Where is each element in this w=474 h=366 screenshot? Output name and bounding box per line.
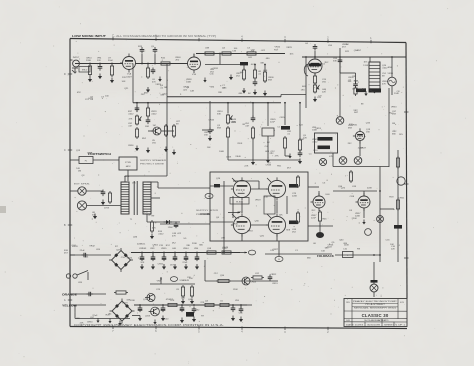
label C2 value [138, 46, 143, 48]
wire lamp stem up [391, 57, 393, 77]
label R9 value [258, 71, 262, 76]
wire arc V2A [304, 64, 308, 76]
connector J2 footswitch jack box [119, 157, 137, 170]
capacitor C37 [231, 306, 236, 313]
wire border stub row2 [70, 293, 76, 295]
node D oval [170, 277, 177, 282]
ground at R1 [88, 77, 92, 83]
capacitor C24 lamp dark [371, 280, 378, 283]
resistor R25 cathode V3A [318, 210, 321, 223]
wire sec yellow [76, 304, 106, 306]
svg-text:EXT SPKR: EXT SPKR [74, 184, 90, 186]
wire box bottom stub 1 [223, 241, 225, 249]
labels psu left [72, 246, 78, 248]
value labels corner row [90, 315, 110, 319]
svg-text:CR49: CR49 [183, 280, 189, 282]
label R29 [343, 249, 348, 251]
svg-text:.0022: .0022 [128, 114, 134, 116]
svg-text:220K: 220K [367, 187, 373, 189]
label R37 [220, 301, 224, 303]
ground at C6 [253, 90, 257, 96]
resistor R26 mid [349, 170, 352, 183]
resistor R38 [181, 285, 184, 298]
wire box bottom stub 2 [278, 241, 280, 256]
capacitor C30 filter [184, 255, 189, 262]
ground psu1 1 [140, 264, 144, 270]
ground at R8 [242, 88, 246, 94]
labels chain x355 [348, 77, 354, 82]
svg-text:COPYRIGHT 1994 PEAVEY ELECTRON: COPYRIGHT 1994 PEAVEY ELECTRONICS CORP. … [74, 324, 225, 327]
svg-text:CR47: CR47 [360, 148, 366, 150]
labels AC 2 [96, 249, 101, 251]
capacitor C17 [298, 151, 303, 158]
label C28 [161, 248, 167, 250]
svg-text:10K: 10K [140, 262, 144, 264]
value labels right column mid [386, 196, 405, 246]
label R4 value [161, 58, 166, 63]
labels T1 [124, 176, 130, 178]
value labels under row1 left [122, 77, 130, 90]
wire pin stubs tubes [232, 178, 271, 218]
wire C7 down [314, 51, 316, 58]
wire shielded rail A [167, 96, 281, 98]
jack J7 top right [389, 82, 391, 84]
ground x300 [298, 159, 302, 165]
label C29 [172, 248, 177, 250]
capacitor C3 top [153, 47, 158, 54]
capacitor C10 [353, 82, 358, 89]
value labels power box [232, 196, 283, 225]
value labels near V2B [348, 125, 367, 150]
svg-text:CR36: CR36 [128, 145, 134, 147]
resistor R14 [146, 106, 149, 118]
svg-text:CR40: CR40 [183, 86, 189, 88]
svg-text:CR22: CR22 [158, 264, 164, 266]
labels near input row [90, 97, 94, 102]
wire box left net [210, 185, 233, 187]
svg-text:1M: 1M [152, 125, 155, 127]
svg-text:33K: 33K [92, 215, 96, 217]
wire drop x167 [166, 64, 168, 97]
note EL84 label box [230, 198, 249, 205]
wire shielded rail B [133, 102, 281, 104]
svg-text:VR27: VR27 [87, 152, 93, 154]
labels row2 left edge [204, 132, 210, 137]
wire bottom corner run [75, 318, 130, 320]
ground psu1 5 [184, 264, 188, 270]
wire cap drop 1 psu1 [141, 253, 143, 258]
transformer T1 secondary winding [143, 182, 151, 214]
svg-text:22K: 22K [391, 249, 395, 251]
value labels reverb driver top [345, 44, 362, 53]
resistor R17 [226, 126, 229, 139]
wire arrow -15 [223, 249, 225, 254]
wire border stub row1 [70, 254, 75, 256]
ground at VR1 [313, 97, 317, 103]
capacitor C15 [251, 116, 256, 123]
svg-text:47K: 47K [329, 156, 333, 158]
capacitor C5 electrolytic [240, 62, 248, 65]
label R5 value [205, 48, 210, 50]
resistor R18 [251, 126, 254, 140]
svg-text:10K: 10K [122, 81, 126, 83]
wire bottom tie row2 [228, 159, 300, 161]
svg-text:SUPPLY SPEAKER: SUPPLY SPEAKER [140, 159, 167, 162]
label R1 value [86, 58, 92, 63]
input jack J1 [70, 60, 79, 73]
labels box right [292, 193, 298, 198]
wire cap drop E psu2 [232, 305, 234, 308]
power amp enclosure box [210, 172, 308, 241]
triode V3A [311, 193, 326, 211]
labels psu2 c [188, 299, 193, 301]
value labels psu row2 below [145, 310, 243, 321]
label R30 [220, 275, 225, 277]
resistor R22 bias [150, 220, 153, 233]
note supply speaker text [140, 159, 167, 166]
resistor R15 [164, 124, 167, 137]
wire box out 1 [308, 186, 319, 188]
resistor R3 cathode [146, 66, 149, 79]
wire arrow into reverb [202, 129, 214, 131]
node C oval psu [248, 250, 255, 255]
svg-text:VR44: VR44 [183, 248, 189, 250]
ground psu1 4 [173, 264, 177, 270]
labels in box 2 [216, 217, 220, 219]
resistor R37 [218, 303, 231, 306]
svg-text:22K: 22K [352, 76, 356, 78]
capacitor C1 [98, 64, 103, 71]
svg-text:1M: 1M [352, 89, 355, 91]
svg-text:VR53: VR53 [247, 230, 253, 232]
node B oval [275, 256, 283, 261]
triode V1B [185, 54, 201, 73]
label R2 value [108, 58, 114, 63]
label V1B [192, 74, 197, 76]
value labels right of box y190 [314, 183, 330, 197]
svg-text:10K: 10K [240, 72, 244, 74]
label R31 [255, 273, 260, 275]
wire DC rail row1 [131, 252, 240, 254]
connector CN1 circle [365, 229, 372, 236]
svg-text:FTSW: FTSW [125, 162, 131, 164]
jack J8 speaker 16 ohm [78, 187, 86, 195]
svg-text:CR34: CR34 [208, 120, 214, 122]
value labels right col lower [389, 107, 404, 137]
wire V2A cathode down [314, 73, 316, 76]
ground extra row1 a [203, 78, 206, 83]
lamp DS1 [388, 77, 397, 86]
note wire color orange [62, 293, 77, 297]
svg-text:V1A: V1A [127, 73, 132, 76]
svg-text:120K: 120K [168, 227, 174, 229]
resistor R30 [216, 279, 231, 282]
svg-text:CR27: CR27 [272, 249, 278, 251]
wire long vertical right x380 [379, 167, 381, 263]
labels x253 [245, 123, 250, 128]
labels coupling row [210, 69, 215, 74]
capacitor C35 dark [186, 312, 194, 317]
capacitor C12 dark [369, 89, 381, 93]
label C27 [150, 248, 155, 250]
ground x253 [251, 160, 255, 166]
wire drop x210 row2 [209, 101, 211, 130]
resistor R36 [203, 303, 216, 306]
svg-text:33K: 33K [348, 81, 352, 83]
value labels row2 right [265, 117, 305, 155]
svg-text:SHEET 1 OF 1: SHEET 1 OF 1 [384, 324, 405, 326]
label C1 value [97, 58, 102, 63]
ground x148 [146, 148, 150, 154]
svg-text:22uF: 22uF [108, 60, 114, 62]
svg-text:CR49: CR49 [222, 247, 228, 249]
labels mid row1 [222, 85, 226, 90]
value labels psu reg [157, 277, 194, 283]
capacitor C20 dark in box [214, 184, 220, 187]
ground psu2 f [239, 317, 243, 323]
resistor R4 plate [159, 62, 172, 65]
svg-text:15K: 15K [264, 196, 268, 198]
resistor R35 [166, 303, 179, 306]
capacitor C34 [180, 306, 185, 313]
svg-text:JACK: JACK [125, 165, 131, 168]
svg-text:220K: 220K [145, 315, 151, 317]
svg-text:CR9: CR9 [150, 248, 155, 250]
labels x300 [303, 135, 307, 140]
value labels row2 left [128, 119, 156, 147]
svg-text:22uF: 22uF [80, 250, 86, 252]
jack J10 right [377, 216, 384, 223]
svg-text:CLASSIC 30: CLASSIC 30 [362, 313, 389, 318]
svg-text:CR25: CR25 [328, 245, 334, 247]
capacitor C21 dark right [289, 184, 298, 188]
labels ladder right 3 [382, 81, 388, 86]
capacitor C18 [101, 190, 106, 197]
value labels transformer zone [104, 183, 155, 239]
svg-text:CR51: CR51 [399, 197, 405, 199]
value labels stage2 top [232, 48, 266, 53]
value labels reverb stack inner [357, 61, 369, 91]
labels ladder right 2 [382, 73, 387, 78]
svg-text:VR16: VR16 [387, 73, 393, 75]
wire stub v3b cathode [363, 208, 365, 218]
wire x285 tie [285, 155, 290, 157]
resistor ladder U1 network [369, 62, 380, 92]
lamp DS2 pilot [370, 284, 378, 292]
svg-text:APPD: APPD [384, 319, 389, 322]
wire bottom row2 tie [333, 166, 389, 168]
wire long vertical x340 [339, 48, 341, 81]
value labels psu left [72, 245, 96, 259]
labels below V1B [186, 79, 192, 84]
wire row2 bottom tie b [132, 315, 140, 317]
label R10 value [268, 77, 274, 82]
label R6 value [222, 48, 226, 50]
capacitor C11 dark [356, 89, 366, 93]
capacitor C4 bypass [151, 68, 156, 75]
ground psu2 d [192, 317, 196, 323]
svg-text:ORANGE: ORANGE [62, 293, 77, 297]
svg-text:220K: 220K [292, 196, 298, 198]
resistor R23 in box [296, 175, 299, 188]
value labels right col upper [349, 104, 371, 126]
labels rail y191 [338, 186, 343, 188]
resistor R1 grid stopper [88, 64, 91, 77]
border zone ticks left [64, 74, 72, 302]
jack J4 reverb return [339, 157, 347, 165]
svg-text:CR19: CR19 [272, 283, 278, 285]
value labels above power box [244, 163, 291, 170]
label C25 [272, 283, 278, 285]
wire rail y191 [333, 190, 377, 192]
transformer T1 core [134, 181, 137, 215]
labels bias 2 [172, 233, 177, 238]
wire drop x300 [299, 103, 301, 140]
svg-text:IM: IM [382, 76, 385, 78]
note footswitch label [88, 152, 111, 156]
svg-text:VR42: VR42 [89, 245, 95, 247]
wire cap drop 6 psu1 [196, 253, 198, 258]
wire lamp drop [373, 262, 375, 284]
capacitor C9 on x340 [338, 58, 343, 65]
labels V3A [311, 215, 317, 220]
wire bottom center row [205, 280, 278, 282]
ground R38 [181, 299, 185, 305]
capacitor C19 bias [174, 222, 179, 229]
note ext speaker [74, 184, 90, 186]
wire cap drop 3 psu1 [163, 253, 165, 258]
svg-text:220K: 220K [86, 60, 92, 62]
capacitor C23 dark right col [394, 225, 402, 229]
svg-text:SUPPLY SPKR: SUPPLY SPKR [196, 210, 219, 212]
potentiometer VR3 reverb [226, 114, 232, 125]
scan artifact mark [0, 206, 6, 213]
transistor Q3 regulator [145, 294, 155, 302]
wire T1 sec top lead [147, 181, 158, 183]
labels y254 b [295, 250, 299, 252]
value labels v3 row lower [325, 240, 361, 251]
switch SW1 power [66, 271, 88, 281]
svg-text:470K: 470K [104, 208, 110, 210]
ground extra psu row2 [153, 320, 156, 325]
value labels psu row1 mid [121, 257, 133, 259]
label R36 [205, 301, 209, 303]
circle X1 top right [389, 82, 391, 84]
capacitor C29 filter [173, 255, 178, 262]
wire y254 right stub [265, 253, 332, 255]
resistor R34 [114, 291, 128, 294]
diode CR1 bias [164, 220, 173, 224]
resistor R5 supply [203, 52, 216, 55]
wire rail to V2A area [281, 94, 306, 96]
svg-text:.0022: .0022 [162, 94, 168, 96]
value labels psu row1 top [116, 244, 229, 251]
value labels tank area [309, 128, 334, 158]
svg-text:CR11: CR11 [124, 176, 130, 178]
wire bias tie [147, 221, 180, 223]
wire junction dots [89, 53, 393, 306]
labels right col [391, 246, 396, 251]
wire drop to row [204, 260, 206, 281]
value labels stage2 below [210, 68, 228, 94]
transistor Q4 regulator [149, 307, 160, 316]
resistor R32 psu [205, 251, 218, 254]
bridge rectifier CR3 [110, 299, 135, 324]
svg-text:.0022: .0022 [151, 114, 157, 116]
wire arrow +V [240, 252, 247, 254]
pentode V7 EL84 no4 [266, 213, 286, 236]
svg-text:INPUT: INPUT [73, 57, 80, 59]
svg-text:22K: 22K [244, 165, 248, 167]
svg-text:VR13: VR13 [315, 128, 321, 130]
ground psu1 3 [162, 264, 166, 270]
ground extra row2 a [288, 154, 291, 159]
labels near input row 2 [101, 97, 105, 99]
svg-text:30301098: 30301098 [367, 324, 380, 326]
ground bias [150, 234, 154, 240]
wire stub right col b [397, 255, 399, 262]
capacitor C26 filter [140, 255, 145, 262]
svg-text:SHLD: SHLD [82, 70, 88, 72]
label C30 [183, 248, 189, 250]
svg-text:15K: 15K [366, 132, 370, 134]
labels x285 [287, 131, 292, 136]
connector CN2 circle [397, 177, 405, 185]
wire reg tie [150, 283, 195, 285]
svg-text:IM: IM [248, 93, 251, 95]
svg-text:15K: 15K [132, 183, 136, 185]
labels tank [312, 127, 318, 132]
wire DC rail row2 [134, 304, 247, 306]
svg-text:PROTECT DRIVE: PROTECT DRIVE [140, 164, 165, 166]
svg-text:VR16: VR16 [275, 47, 281, 49]
wire right long vertical [388, 88, 390, 167]
ground corner a [96, 318, 99, 323]
svg-text:CR24: CR24 [279, 117, 285, 119]
svg-text:100K: 100K [299, 139, 305, 141]
labels x268 [270, 119, 276, 124]
labels volume pot [322, 79, 327, 84]
wire right col tie [380, 208, 394, 210]
bridge rectifier CR2 [109, 248, 133, 272]
label V1A [126, 73, 133, 79]
wire drop x148 [147, 103, 149, 108]
wire psu2 right ext [247, 304, 252, 306]
label R33 [222, 248, 228, 250]
resistor R28 right col [396, 198, 399, 211]
labels psu2 a [143, 299, 148, 301]
svg-text:IM: IM [242, 124, 245, 126]
ground at R15 [164, 147, 168, 153]
wire fs box down [127, 170, 129, 181]
svg-text:33K: 33K [217, 114, 221, 116]
wire x268 low [267, 136, 269, 158]
value labels reverb driver mid [348, 76, 359, 91]
ground R39 [190, 299, 194, 305]
labels right of volume [342, 44, 348, 49]
labels in box [216, 178, 221, 180]
svg-text:100K: 100K [312, 130, 318, 132]
labels reg [156, 289, 161, 291]
value labels stage1 top [175, 57, 181, 62]
svg-text:VR30: VR30 [232, 223, 238, 225]
svg-text:IM: IM [346, 44, 349, 46]
pentode V4 EL84 no1 [231, 177, 251, 200]
wire y255 row [335, 254, 380, 256]
potentiometer VR2 tone [135, 115, 141, 126]
wire T1 bottom lead [146, 214, 148, 222]
value labels footswitch zone [76, 150, 93, 155]
